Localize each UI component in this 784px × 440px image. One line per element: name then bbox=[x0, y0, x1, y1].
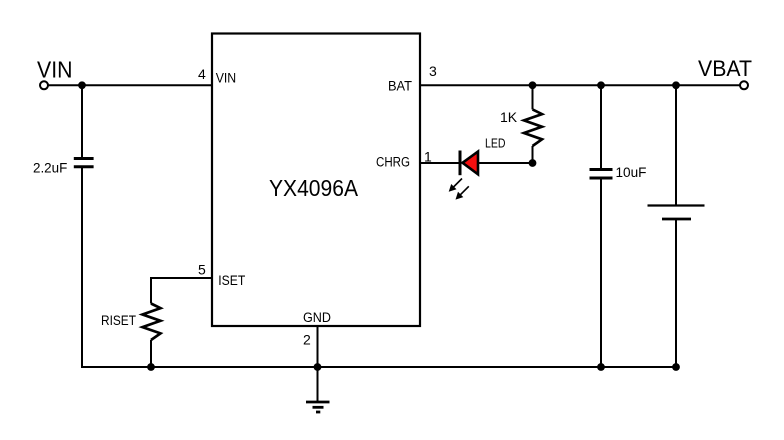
junction BAT/battery bbox=[672, 81, 680, 89]
svg-text:BAT: BAT bbox=[388, 79, 412, 94]
capacitor C2 10uF bbox=[590, 165, 647, 180]
wire LED anode to junction bbox=[478, 162, 533, 164]
svg-text:2.2uF: 2.2uF bbox=[33, 161, 67, 176]
pin 4 VIN label bbox=[198, 66, 236, 86]
wire ground symbol lead bbox=[317, 367, 319, 401]
wire C2 bottom lead bbox=[600, 178, 602, 367]
battery BT1 bbox=[648, 206, 705, 220]
op-amp U1 YX4096A body bbox=[212, 34, 420, 327]
wire RISET bottom lead bbox=[150, 340, 152, 367]
pin 2 GND label bbox=[303, 310, 331, 348]
wire C1 bottom lead to ground rail bbox=[81, 167, 83, 367]
wire pin 2 GND stub bbox=[317, 326, 319, 367]
svg-text:CHRG: CHRG bbox=[376, 154, 410, 169]
wire battery top lead bbox=[675, 85, 677, 205]
junction RISET/ground rail bbox=[147, 363, 155, 371]
junction R1/LED bbox=[529, 159, 537, 167]
svg-text:GND: GND bbox=[303, 310, 331, 325]
svg-text:3: 3 bbox=[429, 63, 437, 79]
svg-text:1K: 1K bbox=[500, 109, 518, 125]
wire pin 3 BAT to VBAT terminal bbox=[420, 84, 740, 86]
junction VIN/C1 bbox=[78, 81, 86, 89]
svg-text:YX4096A: YX4096A bbox=[269, 175, 359, 201]
wire R1 bottom lead bbox=[532, 146, 534, 163]
wire VIN terminal to pin 4 bbox=[48, 84, 212, 86]
resistor R1 1K bbox=[500, 109, 542, 146]
svg-text:2: 2 bbox=[303, 332, 311, 348]
LED emission arrows bbox=[449, 179, 469, 200]
node VBAT terminal bbox=[698, 56, 752, 89]
wire pin 5 ISET to RISET bbox=[151, 278, 212, 304]
svg-text:ISET: ISET bbox=[218, 273, 245, 288]
junction C2/ground rail bbox=[597, 363, 605, 371]
junction BAT/C2 bbox=[597, 81, 605, 89]
node VIN terminal bbox=[37, 57, 73, 90]
LED D1 bbox=[460, 137, 506, 176]
wire C2 top lead bbox=[600, 85, 602, 169]
junction GND/ground rail bbox=[314, 363, 322, 371]
svg-text:RISET: RISET bbox=[101, 313, 136, 328]
wire C1 top lead bbox=[81, 85, 83, 158]
wire R1 top lead bbox=[532, 85, 534, 109]
junction battery/ground rail bbox=[672, 363, 680, 371]
resistor RISET bbox=[101, 304, 161, 341]
svg-text:5: 5 bbox=[198, 262, 206, 278]
svg-text:VIN: VIN bbox=[37, 57, 73, 83]
pin 5 ISET label bbox=[198, 262, 245, 289]
capacitor C1 2.2uF bbox=[33, 159, 94, 176]
svg-text:10uF: 10uF bbox=[616, 165, 647, 180]
junction BAT/R1 bbox=[529, 81, 537, 89]
svg-text:LED: LED bbox=[485, 137, 506, 151]
pin 1 CHRG label bbox=[376, 149, 432, 170]
ground bbox=[306, 402, 330, 412]
svg-text:4: 4 bbox=[198, 66, 206, 82]
wire bottom ground rail bbox=[81, 366, 676, 368]
svg-text:VBAT: VBAT bbox=[698, 56, 752, 81]
wire battery bottom lead bbox=[675, 219, 677, 367]
svg-text:VIN: VIN bbox=[216, 71, 237, 86]
pin 3 BAT label bbox=[388, 63, 437, 94]
wire pin 1 CHRG to LED cathode bbox=[420, 162, 460, 164]
